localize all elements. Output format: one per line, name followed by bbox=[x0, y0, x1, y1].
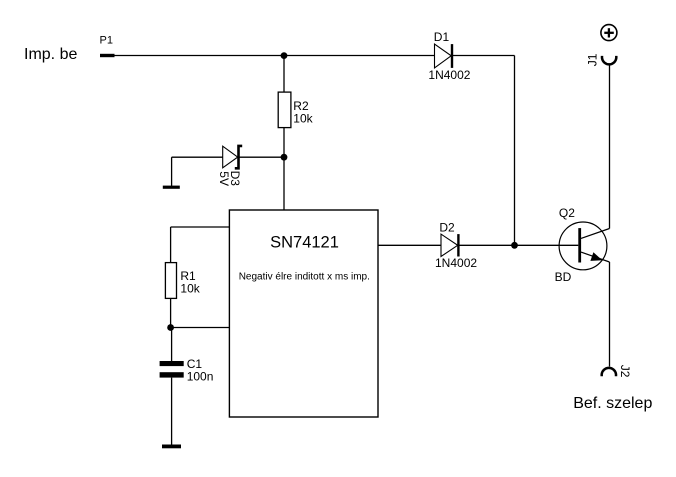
node junction dot R1 / C1 / IC pin bbox=[167, 324, 174, 331]
wire D1 cathode to right corner bbox=[452, 55, 515, 57]
resistor R1 bbox=[165, 263, 200, 299]
diode D1 1N4002 bbox=[428, 30, 470, 82]
wire junction down to IC top pin bbox=[283, 157, 285, 210]
wire down to R1 bbox=[170, 227, 172, 263]
svg-text:P1: P1 bbox=[100, 35, 113, 47]
node + supply marker bbox=[601, 25, 617, 41]
diode D3 (zener 5V) bbox=[217, 146, 242, 186]
wire ground to D3 anode bbox=[172, 156, 223, 158]
node junction dot top rail / R2 bbox=[281, 52, 288, 59]
wire junction to Q2 base bbox=[515, 244, 579, 246]
svg-text:BD: BD bbox=[555, 270, 572, 284]
capacitor C1 bbox=[160, 357, 214, 383]
node Bef. szelep label bbox=[573, 395, 652, 412]
svg-text:Negativ élre inditott x ms imp: Negativ élre inditott x ms imp. bbox=[239, 272, 370, 283]
svg-text:100n: 100n bbox=[187, 369, 214, 383]
wire D3 cathode to junction bbox=[239, 156, 284, 158]
wire IC left bottom pin bbox=[171, 327, 230, 329]
diode D2 1N4002 bbox=[435, 220, 477, 270]
terminal P1 bbox=[100, 35, 115, 58]
wire R2 top lead bbox=[283, 56, 285, 93]
svg-text:1N4002: 1N4002 bbox=[428, 68, 470, 82]
wire top rail P1 to D1 anode bbox=[115, 55, 435, 57]
svg-text:SN74121: SN74121 bbox=[270, 234, 339, 252]
wire C1 bottom to ground bbox=[171, 378, 173, 445]
node junction dot D3 cathode / R2 bottom bbox=[281, 154, 288, 161]
connector J1 bbox=[586, 53, 617, 66]
wire IC output pin to D2 anode bbox=[378, 244, 441, 246]
wire R2 bottom lead bbox=[283, 128, 285, 158]
wire IC left top pin bbox=[171, 226, 230, 228]
svg-text:1N4002: 1N4002 bbox=[435, 256, 477, 270]
svg-text:10k: 10k bbox=[180, 282, 200, 296]
op-amp U1 SN74121 box bbox=[229, 210, 378, 417]
wire D2 cathode to junction bbox=[459, 244, 515, 246]
node Imp. be label bbox=[24, 46, 77, 63]
svg-text:5V: 5V bbox=[217, 171, 231, 186]
node junction dot D1/D2/base net bbox=[511, 242, 518, 249]
svg-text:D2: D2 bbox=[439, 220, 455, 234]
wire Q2 emitter to J2 bbox=[609, 262, 611, 367]
ground (left of D3) bbox=[163, 157, 180, 189]
wire corner down to D2 net junction bbox=[514, 56, 516, 246]
svg-text:D1: D1 bbox=[434, 30, 450, 44]
svg-text:Bef. szelep: Bef. szelep bbox=[573, 395, 652, 412]
svg-text:Q2: Q2 bbox=[559, 206, 575, 220]
wire junction to C1 top bbox=[171, 328, 173, 362]
svg-text:J1: J1 bbox=[586, 53, 600, 66]
svg-text:J2: J2 bbox=[618, 365, 632, 378]
svg-text:Imp. be: Imp. be bbox=[24, 46, 77, 63]
wire Q2 collector to J1 bbox=[609, 65, 611, 229]
wire R1 bottom lead bbox=[170, 298, 172, 327]
transistor Q2 BD bbox=[555, 206, 610, 284]
resistor R2 bbox=[278, 92, 313, 128]
ground (below C1) bbox=[162, 445, 181, 449]
svg-text:10k: 10k bbox=[293, 111, 313, 125]
connector J2 bbox=[602, 365, 632, 378]
